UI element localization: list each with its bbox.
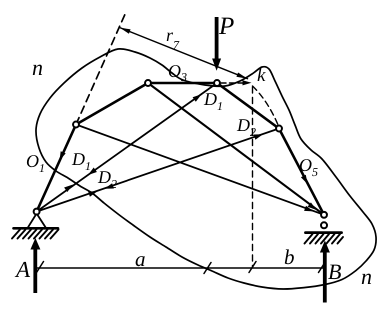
svg-text:D: D xyxy=(236,115,250,135)
svg-text:D: D xyxy=(97,167,111,187)
svg-text:O: O xyxy=(168,61,181,81)
svg-text:2: 2 xyxy=(250,125,256,139)
svg-text:A: A xyxy=(14,257,31,282)
svg-text:n: n xyxy=(32,55,43,80)
svg-text:O: O xyxy=(26,151,39,171)
svg-text:1: 1 xyxy=(217,99,223,113)
svg-text:7: 7 xyxy=(173,38,180,52)
svg-text:P: P xyxy=(218,13,234,40)
svg-text:3: 3 xyxy=(180,70,187,84)
svg-text:1: 1 xyxy=(85,159,91,173)
svg-text:5: 5 xyxy=(312,165,318,179)
svg-text:n: n xyxy=(361,264,372,289)
svg-text:k: k xyxy=(257,65,266,86)
svg-text:O: O xyxy=(299,155,312,175)
svg-text:1: 1 xyxy=(39,161,45,175)
svg-text:b: b xyxy=(284,245,295,269)
svg-text:D: D xyxy=(71,149,85,169)
svg-text:B: B xyxy=(328,259,341,284)
svg-text:D: D xyxy=(203,89,217,109)
svg-text:a: a xyxy=(135,247,146,271)
svg-text:2: 2 xyxy=(111,177,117,191)
